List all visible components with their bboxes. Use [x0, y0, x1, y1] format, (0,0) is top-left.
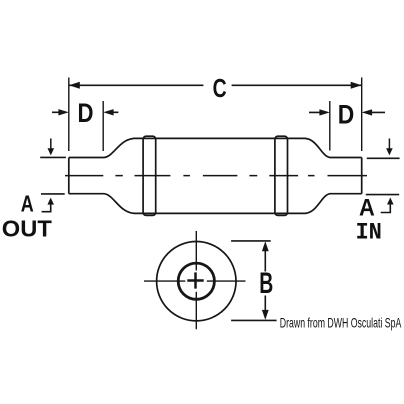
up arrow bottom right — [381, 204, 391, 212]
B reference line bottom — [231, 319, 277, 321]
end view outer circle — [157, 242, 236, 321]
svg-text:C: C — [213, 73, 227, 103]
arrowhead D right outer — [362, 109, 372, 115]
up arrow bottom left — [42, 204, 51, 212]
dimension D right arrow lines — [309, 111, 385, 113]
end view vertical centerline — [195, 231, 197, 329]
muffler body outline — [69, 138, 362, 213]
weld band right — [275, 136, 288, 215]
dimension D left arrow lines — [52, 111, 118, 113]
arrowhead B bottom — [262, 310, 269, 320]
svg-text:A: A — [359, 195, 375, 222]
arrowhead D right inner — [319, 109, 329, 115]
arrowhead C right — [351, 82, 362, 89]
weld band left — [143, 136, 156, 215]
extension line right cone end — [329, 101, 331, 151]
down arrow top right — [388, 139, 390, 150]
end view inner circle — [178, 263, 214, 299]
svg-text:D: D — [78, 98, 94, 128]
center mark cross — [187, 272, 203, 288]
reference line top left — [40, 156, 66, 158]
reference line bottom left — [41, 193, 65, 195]
arrowhead C left — [69, 82, 80, 89]
svg-text:Drawn from DWH Osculati SpA: Drawn from DWH Osculati SpA — [280, 315, 402, 330]
dimension line B — [264, 249, 266, 312]
pipe end cap left — [68, 158, 70, 194]
end view horizontal centerline — [144, 280, 246, 282]
svg-text:IN: IN — [355, 220, 382, 247]
svg-text:B: B — [259, 267, 273, 300]
svg-text:OUT: OUT — [2, 216, 53, 242]
B reference line top — [231, 240, 271, 242]
down arrow top left — [50, 138, 52, 149]
svg-text:A: A — [21, 191, 34, 217]
arrowhead D left outer — [58, 109, 68, 115]
arrowhead B top — [262, 241, 269, 251]
extension line right pipe end — [361, 78, 363, 152]
arrowhead D left inner — [103, 109, 113, 115]
reference line top right — [367, 157, 400, 159]
extension line left pipe end — [68, 78, 70, 152]
svg-text:D: D — [338, 100, 355, 130]
pipe end cap right — [361, 158, 363, 194]
reference line bottom right — [366, 194, 399, 196]
dimension line C — [69, 84, 362, 86]
extension line left cone start — [102, 101, 104, 151]
centerline of muffler — [65, 175, 367, 177]
